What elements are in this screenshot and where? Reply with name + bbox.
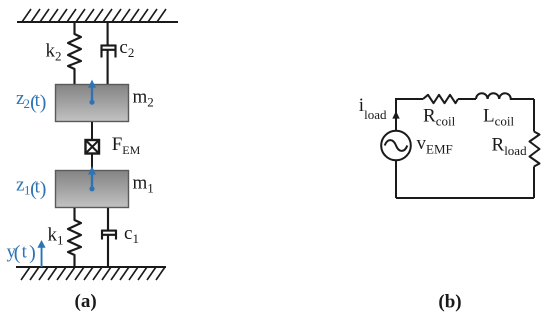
arrow z1 <box>88 166 96 191</box>
svg-text:2: 2 <box>24 96 31 111</box>
wire to corner <box>511 98 534 100</box>
damper c2 <box>102 22 116 84</box>
actuator F_EM <box>86 122 100 170</box>
svg-text:c2: c2 <box>119 37 134 60</box>
svg-text:iload: iload <box>359 95 387 122</box>
wire down to corner <box>533 167 535 199</box>
left wire lower <box>395 160 397 198</box>
arrow z2 <box>88 80 96 105</box>
svg-text:t: t <box>22 242 28 263</box>
spring k2 <box>68 22 81 84</box>
svg-text:m1: m1 <box>133 173 154 196</box>
wire top-left <box>396 98 423 100</box>
bottom wire <box>396 197 534 199</box>
label y(t) <box>7 242 36 265</box>
svg-text:c1: c1 <box>124 223 139 246</box>
svg-text:Rcoil: Rcoil <box>423 106 456 129</box>
svg-text:): ) <box>29 242 36 264</box>
svg-text:(a): (a) <box>75 291 97 312</box>
arrow y <box>37 240 45 267</box>
inductor L_coil <box>476 93 511 99</box>
ground <box>16 267 166 280</box>
resistor R_load <box>530 132 540 167</box>
label z1(t) <box>16 175 46 201</box>
label z2(t) <box>16 88 46 114</box>
spring k1 <box>68 208 81 267</box>
right wire down <box>533 99 535 132</box>
svg-text:k2: k2 <box>46 41 62 64</box>
svg-text:): ) <box>40 178 47 200</box>
svg-text:vEMF: vEMF <box>417 133 453 157</box>
svg-text:m2: m2 <box>133 87 154 110</box>
svg-text:FEM: FEM <box>112 134 141 157</box>
svg-text:k1: k1 <box>48 225 64 248</box>
wire <box>458 98 476 100</box>
mass m1 <box>56 171 129 208</box>
resistor R_coil <box>423 95 458 103</box>
ceiling <box>17 9 178 22</box>
svg-text:(b): (b) <box>438 292 461 313</box>
source V_EMF (AC symbol) <box>381 131 411 161</box>
svg-text:(: ( <box>14 242 21 264</box>
damper c1 <box>102 208 116 267</box>
svg-text:Rload: Rload <box>492 135 528 159</box>
svg-text:Lcoil: Lcoil <box>483 106 514 129</box>
left wire upper <box>395 98 397 131</box>
arrow i_load <box>392 111 399 119</box>
mass m2 <box>56 85 129 122</box>
svg-text:): ) <box>40 92 47 114</box>
